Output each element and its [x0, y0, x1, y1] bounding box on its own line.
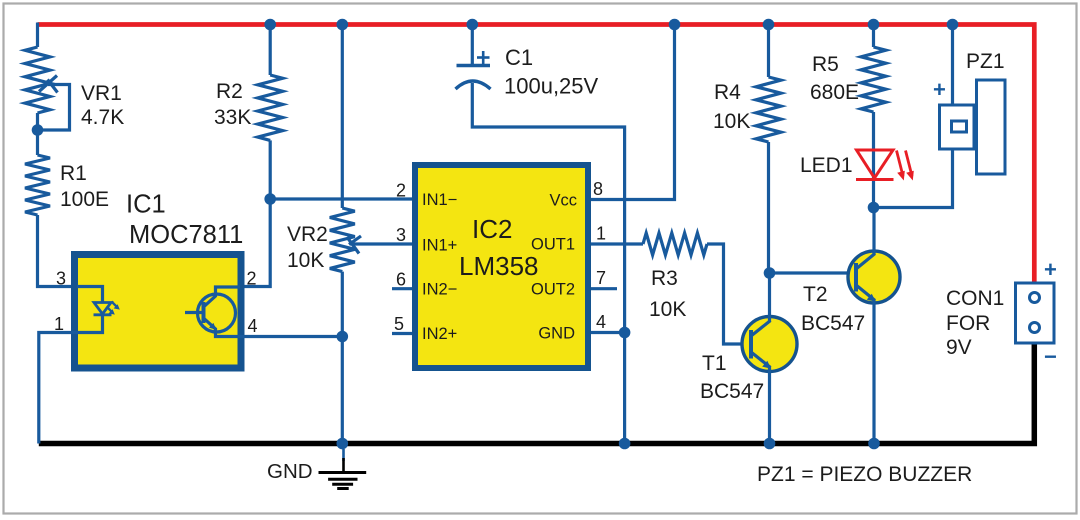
wire R1 bottom to IC1 pin3 — [38, 215, 103, 287]
svg-text:PZ1 = PIEZO BUZZER: PZ1 = PIEZO BUZZER — [757, 463, 972, 486]
VR1 wiper arrow — [39, 76, 57, 92]
svg-text:VR1: VR1 — [81, 82, 122, 105]
svg-text:VR2: VR2 — [287, 223, 328, 246]
svg-text:+: + — [1044, 257, 1057, 282]
PZ1 terminal inner mark — [952, 121, 967, 132]
node VR2 top on rail — [337, 19, 349, 31]
svg-text:R2: R2 — [216, 80, 243, 103]
svg-text:FOR: FOR — [946, 312, 990, 335]
wire IC1 pin4 to VR2 bottom node — [240, 335, 342, 338]
IC1 phototransistor emitter — [204, 318, 241, 337]
ground symbol — [342, 449, 345, 461]
wire node down to IC1 pin2 — [216, 199, 271, 287]
LED LED1 light arrows — [897, 151, 904, 177]
svg-text:5: 5 — [394, 314, 404, 334]
VR1 wiper bracket wire — [39, 85, 70, 131]
IC2 pin4 wire to GND line — [591, 331, 625, 334]
resistor R4 zigzag — [756, 77, 781, 142]
IC2 pin5 stub — [392, 332, 412, 335]
svg-text:+: + — [933, 77, 946, 102]
svg-text:9V: 9V — [946, 336, 972, 359]
svg-text:IN2−: IN2− — [422, 281, 457, 299]
svg-text:IN1−: IN1− — [422, 191, 457, 209]
svg-text:GND: GND — [267, 460, 313, 483]
svg-text:6: 6 — [396, 270, 406, 290]
transistor T1 BC547 — [742, 317, 797, 372]
node VR2 line on ground rail — [337, 438, 349, 450]
node R4 top on rail — [763, 19, 775, 31]
wire R5 to LED1 and node — [872, 112, 875, 208]
node R4 / T1 collector / T2 base — [764, 267, 776, 279]
node T2 emitter on ground rail — [868, 438, 880, 450]
wire rail to R5 — [872, 25, 875, 48]
svg-text:7: 7 — [596, 268, 606, 288]
svg-text:LM358: LM358 — [459, 251, 539, 281]
svg-text:OUT2: OUT2 — [531, 281, 575, 299]
node T1 emitter on ground rail — [764, 438, 776, 450]
wire C1 bottom to IC2 GND line — [472, 83, 624, 444]
svg-text:BC547: BC547 — [700, 380, 764, 403]
svg-text:1: 1 — [54, 314, 64, 334]
wire rail to C1 — [471, 25, 474, 65]
node Vcc on rail — [669, 19, 681, 31]
CON1 top circle — [1030, 293, 1040, 303]
wire R2 bottom to node — [269, 140, 272, 199]
node C1 top on rail — [467, 19, 479, 31]
VR2 wiper arrow wire to IC2 pin3 IN1+ — [350, 242, 412, 245]
node R5 top on rail — [868, 19, 880, 31]
svg-text:R1: R1 — [60, 162, 87, 185]
node LED1 cathode / buzzer / T2 collector — [868, 202, 880, 214]
svg-text:R4: R4 — [714, 81, 741, 104]
+9V red power rail (top) — [38, 25, 1035, 285]
node VR1/R1 junction — [32, 124, 44, 136]
node VR2 bottom / IC1 pin4 junction — [337, 331, 349, 343]
wire R4 bottom to T1 collector node — [767, 142, 770, 273]
op-amp IC2 LM358 box — [415, 165, 588, 368]
wire VR1 bottom to node — [36, 113, 39, 155]
svg-text:Vcc: Vcc — [549, 192, 577, 210]
connector CON1 box — [1016, 283, 1055, 343]
svg-text:IC2: IC2 — [472, 214, 512, 244]
node IC2 pin4 GND junction — [619, 327, 631, 339]
svg-text:CON1: CON1 — [946, 287, 1004, 310]
wire rail to VR1 top — [36, 23, 39, 48]
resistor R3 zigzag — [643, 233, 707, 255]
svg-text:3: 3 — [396, 225, 406, 245]
svg-text:PZ1: PZ1 — [966, 50, 1005, 73]
IC1 internal LED — [94, 303, 111, 315]
svg-text:10K: 10K — [649, 298, 686, 321]
wire R3 to T1 base — [707, 244, 751, 344]
wire rail to R2 — [269, 25, 272, 76]
wire T1 collector to node — [768, 273, 771, 321]
svg-text:R3: R3 — [651, 267, 678, 290]
IC1 LED light arrows — [107, 307, 113, 313]
svg-text:10K: 10K — [287, 249, 324, 272]
capacitor C1 top plate — [457, 64, 491, 67]
wire IC2 pin1 OUT1 to R3 — [591, 242, 643, 245]
svg-text:R5: R5 — [812, 53, 839, 76]
svg-text:C1: C1 — [505, 45, 533, 70]
svg-text:10K: 10K — [713, 110, 750, 133]
wire rail to PZ1 + — [951, 25, 954, 106]
svg-text:1: 1 — [596, 224, 606, 244]
IC1 phototransistor collector — [204, 287, 241, 307]
svg-text:8: 8 — [593, 179, 603, 199]
wire T2 collector to LED node — [872, 208, 875, 255]
wire node to T2 base — [770, 271, 857, 274]
svg-text:4: 4 — [596, 312, 606, 332]
node R2 / IN1- junction — [264, 193, 276, 205]
ground black rail (bottom) — [39, 342, 1035, 444]
svg-text:33K: 33K — [214, 106, 251, 129]
capacitor C1 curved bottom plate — [456, 81, 491, 89]
svg-text:100E: 100E — [60, 188, 109, 211]
wire VR2 bottom to ground rail — [341, 272, 344, 444]
wire T1 emitter to ground rail — [768, 367, 771, 444]
svg-text:2: 2 — [396, 181, 406, 201]
svg-text:680E: 680E — [810, 81, 859, 104]
svg-text:4.7K: 4.7K — [81, 106, 124, 129]
wire node to IC2 pin2 IN1- — [270, 197, 412, 200]
transistor T2 BC547 — [848, 251, 900, 303]
svg-text:IC1: IC1 — [126, 191, 166, 219]
wire T2 emitter to ground rail — [872, 300, 875, 444]
node R2 top on rail — [264, 19, 276, 31]
capacitor C1 plus sign — [477, 56, 490, 59]
wire rail to IC2 pin8 Vcc — [591, 25, 675, 200]
svg-text:T1: T1 — [702, 352, 727, 375]
resistor R2 zigzag — [258, 75, 283, 140]
svg-text:4: 4 — [248, 316, 258, 336]
LED LED1 triangle — [857, 150, 894, 178]
svg-text:IN2+: IN2+ — [422, 325, 457, 343]
potentiometer VR2 zigzag — [330, 208, 355, 272]
resistor R1 zigzag — [25, 155, 50, 215]
IC1 internal LED bracket wire — [77, 287, 103, 304]
node GND line on ground rail — [619, 438, 631, 450]
IC1 phototransistor circle — [198, 294, 236, 332]
resistor R5 zigzag — [861, 47, 886, 112]
wire rail to R4 — [767, 25, 770, 78]
svg-text:3: 3 — [56, 269, 66, 289]
svg-text:100u,25V: 100u,25V — [504, 74, 599, 99]
IC1 phototransistor base line — [185, 311, 204, 314]
piezo buzzer PZ1 disc — [977, 80, 1006, 174]
piezo buzzer PZ1 terminal box — [940, 105, 975, 149]
wire IC1 pin1 to ground rail — [39, 333, 77, 444]
svg-text:MOC7811: MOC7811 — [129, 221, 243, 249]
svg-text:−: − — [1044, 344, 1057, 369]
IC2 pin7 stub — [591, 287, 617, 290]
svg-text:LED1: LED1 — [800, 154, 853, 177]
svg-text:GND: GND — [538, 325, 575, 343]
svg-text:T2: T2 — [803, 283, 828, 306]
op-to-coupler IC1 MOC7811 box — [75, 255, 242, 369]
wire PZ1 - to LED node — [874, 149, 953, 208]
wire rail to VR2 top — [341, 25, 344, 209]
svg-text:2: 2 — [247, 269, 257, 289]
LED LED1 cathode bar — [856, 178, 894, 181]
svg-text:BC547: BC547 — [801, 312, 865, 335]
potentiometer VR1 zigzag — [25, 47, 50, 113]
CON1 bottom circle — [1030, 323, 1040, 333]
node PZ1 on rail — [947, 19, 959, 31]
IC2 pin6 stub — [392, 287, 412, 290]
svg-text:IN1+: IN1+ — [422, 237, 457, 255]
